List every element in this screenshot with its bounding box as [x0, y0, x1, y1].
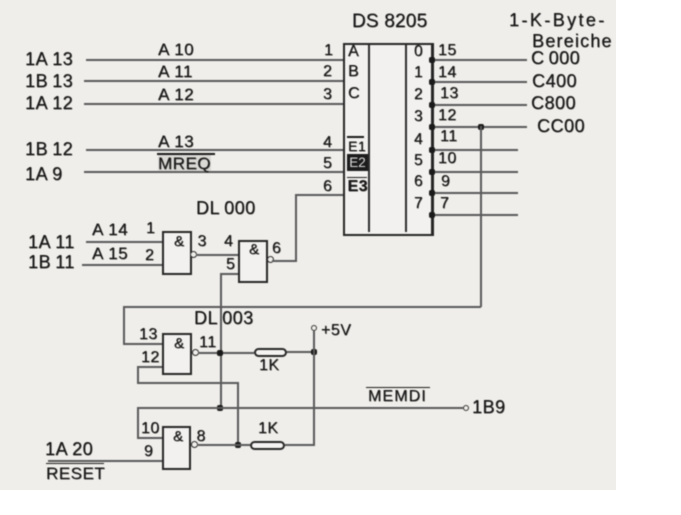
label DL000 [196, 199, 256, 217]
wire pin5 horizontal [221, 273, 238, 275]
pin 9 gate4 [144, 444, 153, 460]
wire into pin10 [137, 437, 162, 439]
pin 13 [440, 86, 459, 102]
IC output 3 [414, 109, 423, 125]
resistor R1 1K [254, 348, 287, 357]
IC input label B [348, 64, 359, 80]
gate DL000a & [174, 234, 185, 249]
wire out5 [432, 171, 518, 173]
junction out3 [429, 124, 435, 130]
wire out0 C000 [432, 59, 527, 61]
pin 14 [438, 65, 457, 81]
wire gate4 out [197, 444, 250, 446]
IC input label C [348, 86, 360, 102]
gate DL003b & [173, 429, 184, 444]
wire gate2 out [272, 260, 296, 262]
label C800 [531, 94, 576, 112]
pin 5 [323, 156, 332, 172]
junction out11 [217, 350, 223, 356]
label 1K R1 [259, 358, 280, 374]
resistor R2 1K [250, 441, 285, 450]
gate DL000b bubble [267, 256, 274, 263]
op chip label DS 8205 [352, 12, 427, 31]
gate DL003b bubble [191, 441, 198, 448]
label A11 [158, 63, 193, 80]
junction out5 [429, 169, 435, 175]
wire MREQ [84, 171, 343, 173]
pin 10 [438, 151, 457, 167]
wire +5V vertical [313, 331, 315, 446]
terminal +5V [311, 325, 317, 331]
pin 5 gate2 [226, 257, 235, 273]
pin 12 gate3 [141, 350, 160, 366]
wire pin12 cross horizontal [137, 382, 239, 384]
pin 3 [323, 87, 332, 103]
label MEMDI overline [366, 387, 430, 389]
wire out4 [432, 149, 518, 151]
gate DL003a & [174, 336, 185, 351]
wire E3 vertical riser [295, 194, 297, 262]
wire A11 [84, 80, 343, 82]
wire A15 [82, 264, 163, 266]
IC input label E3 [348, 179, 369, 195]
pin 2 [323, 64, 332, 80]
pin 2 gate1 [145, 248, 154, 264]
label 1B9 [472, 398, 506, 416]
node 1B12 [25, 140, 73, 158]
pin 6 gate2 out [272, 241, 281, 257]
IC output 2 [414, 87, 423, 103]
IC output 6 [414, 174, 423, 190]
wire A12 [84, 103, 343, 105]
label 1-K-Byte- [509, 11, 607, 29]
terminal 1B9 [463, 405, 469, 411]
pin 3 gate1 out [198, 234, 207, 250]
label A12 [158, 86, 194, 103]
wire cross down to out8 [237, 382, 239, 445]
IC output 7 [414, 196, 423, 212]
label A14 [92, 221, 128, 238]
junction CC00 tap [478, 124, 484, 130]
wire out2 C800 [432, 104, 527, 106]
junction out4 [429, 147, 435, 153]
junction out0 [429, 57, 435, 63]
gate DL003a body [162, 333, 192, 375]
wire out1 C400 [432, 81, 527, 83]
wire R2 right [285, 444, 314, 446]
IC input label E1 overline [347, 136, 364, 138]
IC internal divider 2 [405, 45, 407, 232]
node 1A13 [25, 50, 73, 68]
junction R1 +5V [311, 349, 317, 355]
pin 10 gate4 [141, 421, 160, 437]
wire MEMDI [137, 407, 463, 409]
label 1K R2 [258, 421, 279, 437]
wire into pin13 [123, 343, 163, 345]
gate DL003a bubble [192, 349, 199, 356]
junction MEMDI [217, 405, 223, 411]
IC input label A [348, 44, 359, 60]
pin 12 [438, 108, 457, 124]
pin 11 [440, 129, 458, 145]
wire out3 CC00 [432, 126, 527, 128]
IC output 0 [414, 44, 423, 60]
gate DL000b & [249, 242, 260, 257]
wire gate3 out [198, 352, 254, 354]
wire A13 [86, 149, 343, 151]
wire A14 [86, 241, 163, 243]
pin 7 [440, 196, 449, 212]
IC output 1 [414, 65, 423, 81]
wire pin12 horizontal [137, 366, 162, 368]
IC internal divider 1 [368, 45, 370, 232]
wire out6 [432, 192, 518, 194]
pin 1 [324, 43, 333, 59]
label C000 [531, 49, 580, 67]
wire pin5 / out11 vertical bus [220, 273, 222, 409]
pin 8 gate4 out [197, 429, 206, 445]
junction out2 [429, 102, 435, 108]
gate DL000b body [238, 240, 268, 283]
gate DL000a bubble [190, 251, 197, 258]
junction out7 [429, 212, 435, 218]
label A13 [158, 133, 194, 150]
junction out6 [429, 190, 435, 196]
label +5V [321, 323, 351, 339]
wire RESET [48, 460, 162, 462]
label A15 [92, 245, 128, 262]
IC input label E2 (inverted badge) [347, 154, 368, 171]
label Bereiche [532, 32, 613, 50]
IC DS8205 body [343, 43, 434, 236]
wire E3 horizontal to chip [295, 194, 343, 196]
IC output 5 [414, 153, 423, 169]
wire out7 [432, 214, 518, 216]
node 1A12 [25, 94, 73, 112]
IC input label E1 [348, 139, 366, 153]
pin 11 gate3 out [199, 335, 217, 351]
label DL003 [194, 309, 254, 327]
pin 9 [441, 174, 450, 190]
label RESET [46, 465, 105, 482]
node 1A20 [45, 440, 93, 458]
junction out1 [429, 79, 435, 85]
node 1B13 [25, 72, 73, 90]
IC output 4 [414, 132, 423, 148]
label CC00 [537, 117, 585, 135]
gate DL003b body [162, 426, 191, 470]
label MREQ overline [157, 153, 215, 155]
pin 4 [323, 135, 332, 151]
node 1A9 [25, 165, 63, 183]
wire pin12 down [137, 366, 139, 384]
wire MEMDI down-left [137, 407, 139, 438]
gate DL000a body [162, 231, 192, 275]
label MEMDI [368, 389, 427, 405]
wire gate1 out [196, 254, 238, 256]
wire feedback down-left [123, 306, 125, 344]
label A10 [158, 41, 194, 58]
pin 15 [438, 43, 457, 59]
label MREQ [158, 155, 211, 172]
node 1A11 [28, 233, 75, 251]
pin 4 gate2 [224, 234, 233, 250]
pin 1 gate1 [146, 221, 155, 237]
label RESET overline [46, 463, 104, 465]
label C400 [532, 72, 577, 90]
pin 13 gate3 [139, 327, 158, 343]
wire CC00 drop [480, 126, 482, 307]
wire feedback horizontal [123, 306, 481, 308]
junction out8 cross [235, 442, 241, 448]
pin 6 [323, 179, 332, 195]
IC input label E3 overline [347, 177, 367, 179]
wire A10 [86, 59, 343, 61]
node 1B11 [28, 253, 75, 271]
wire R1 right [287, 351, 314, 353]
